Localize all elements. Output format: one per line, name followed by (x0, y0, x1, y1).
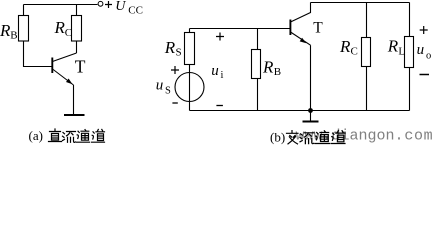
svg-text:S: S (176, 47, 182, 59)
svg-text:(a): (a) (29, 128, 43, 143)
svg-text:B: B (10, 29, 17, 41)
svg-text:S: S (165, 86, 171, 97)
svg-text:u: u (417, 42, 425, 58)
svg-text:C: C (351, 45, 358, 57)
svg-text:com: com (404, 128, 432, 145)
svg-text:(b): (b) (270, 130, 285, 145)
svg-text:i: i (221, 70, 224, 81)
svg-text:T: T (313, 19, 323, 36)
svg-text:R: R (387, 37, 399, 56)
svg-text:L: L (398, 46, 405, 58)
svg-text:B: B (274, 66, 281, 78)
svg-text:R: R (339, 37, 351, 56)
svg-text:R: R (54, 18, 66, 37)
svg-text:u: u (156, 77, 164, 93)
svg-text:U: U (115, 0, 126, 14)
svg-text:T: T (75, 57, 86, 77)
svg-text:CC: CC (128, 4, 143, 16)
svg-text:R: R (164, 38, 176, 57)
svg-text:R: R (262, 58, 274, 77)
svg-text:o: o (426, 51, 431, 62)
svg-text:C: C (65, 27, 72, 39)
svg-text:u: u (211, 63, 219, 79)
